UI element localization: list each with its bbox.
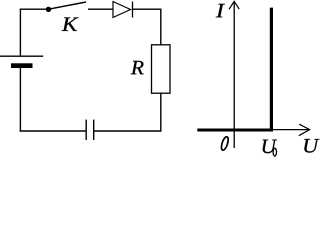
wire diode-to-corner	[133, 8, 162, 10]
wire right vertical lower	[160, 93, 162, 131]
wire bottom left	[20, 130, 86, 132]
axis I arrowhead	[229, 1, 239, 9]
axis I label	[216, 4, 225, 17]
curve horizontal segment I=0	[197, 129, 273, 132]
resistor R box	[152, 45, 171, 93]
wire bottom right	[94, 130, 162, 132]
battery G positive thin plate	[0, 55, 43, 57]
capacitor C left plate	[85, 120, 87, 140]
wire left vertical lower	[19, 67, 21, 132]
wire left vertical upper	[19, 9, 21, 57]
diode D triangle	[113, 2, 131, 18]
wire top-left horizontal	[20, 8, 46, 10]
axis U horizontal line	[234, 129, 309, 131]
curve vertical segment at U0	[270, 8, 273, 132]
label U0 subscript	[273, 148, 276, 156]
origin label O	[220, 136, 229, 151]
resistor R label	[131, 61, 144, 74]
battery G negative thick plate	[11, 63, 33, 68]
wire right vertical upper	[160, 9, 162, 45]
axis U arrowhead	[299, 124, 310, 136]
switch K blade	[51, 2, 87, 9]
wire switch-to-diode	[88, 8, 113, 10]
axis U label	[304, 139, 319, 153]
axis I vertical line	[233, 2, 235, 148]
capacitor C right plate	[93, 120, 95, 140]
node junction dot of switch K	[46, 7, 51, 12]
switch K label	[62, 17, 79, 30]
diode D cathode bar	[132, 2, 134, 18]
label U0	[263, 140, 277, 154]
